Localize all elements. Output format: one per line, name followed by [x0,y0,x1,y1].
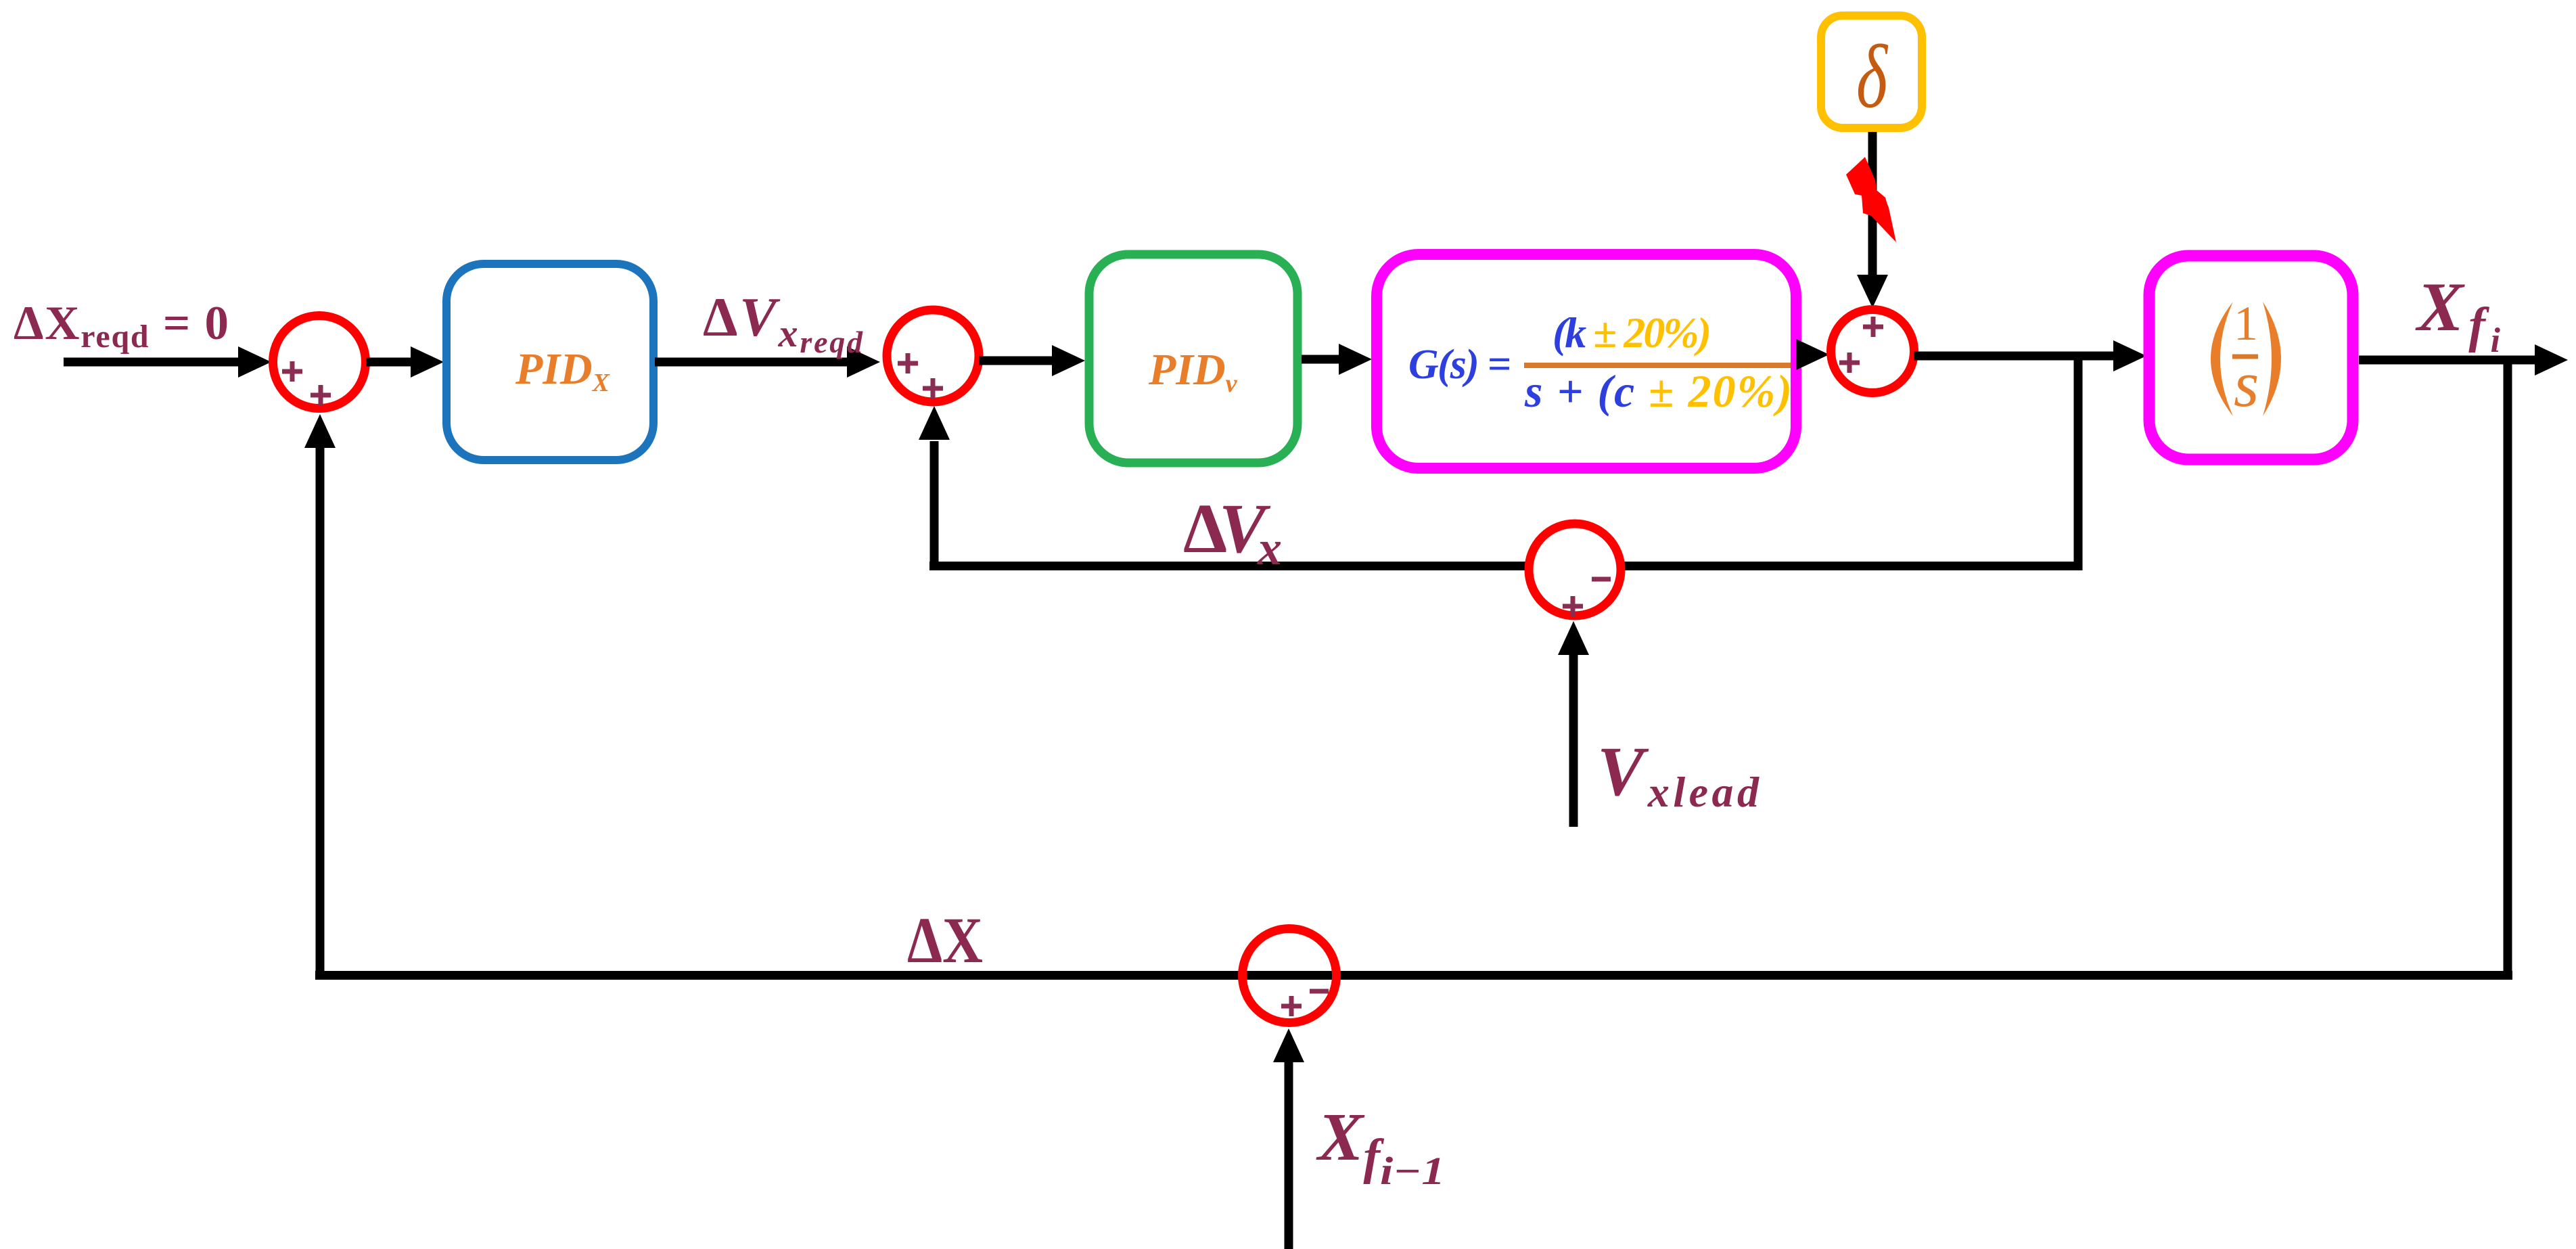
S1 plus sign (left) [282,361,302,382]
wire: V_xlead arrow up into S4 [1558,621,1589,827]
wire: bottom feedback takeoff down and left [315,356,2512,980]
S5 plus sign (bottom) [1281,996,1302,1016]
svg-text:1: 1 [2234,296,2258,350]
S3 plus sign (left) [1839,353,1860,373]
svg-text:δ: δ [1856,26,1889,127]
block PID_v (green box) [1089,254,1297,463]
summer S3 (circle) [1831,310,1914,393]
wire: S2 to PID_v [979,345,1085,376]
svg-text:s + (c ± 20%): s + (c ± 20%) [1524,365,1792,417]
wire: X_f_i-1 arrow up into S5 [1273,1028,1304,1249]
summer S4 (circle, on ΔV_x feedback) [1529,524,1621,616]
block PID_X (blue box) [446,264,653,460]
summer S1 (circle) [273,316,366,409]
wire: ΔV_x feedback takeoff down and left [929,353,2082,570]
fraction bar [1524,363,1791,368]
wire: G to summer S3 (short arrow) [1796,339,1829,370]
summer S2 (circle) [887,310,979,402]
lightning bolt (red) [1846,157,1896,242]
wire: delta arrow down into S3 [1857,132,1888,308]
block delta disturbance (gold box) [1821,16,1922,128]
svg-text:PIDv: PIDv [1148,345,1238,398]
(1/s) content [2211,296,2281,420]
S3 plus sign (top) [1863,317,1883,337]
wire: S1 to PID_X [366,346,444,378]
wire: PID_v to plant G [1302,344,1372,375]
wire: PID_X to summer S2 [655,346,880,378]
S5 minus sign [1310,989,1329,994]
S4 plus sign (bottom) [1563,596,1583,616]
wire: bottom feedback vertical into S1 [304,414,336,980]
S2 plus sign (bottom) [923,378,943,399]
wire: ΔV_x feedback vertical into S2 [919,406,950,570]
wire: S3 to integrator with takeoff junction [1914,340,2146,371]
wire: integrator output with takeoff [2359,344,2568,376]
S1 plus sign (bottom) [310,385,331,405]
svg-text:ΔX: ΔX [907,904,983,976]
block integrator 1/s (magenta box) [2149,256,2353,459]
svg-text:(k ± 20%): (k ± 20%) [1552,309,1711,357]
svg-text:G(s) =: G(s) = [1408,342,1511,388]
S4 minus sign [1592,577,1611,582]
summer S5 (circle, on bottom feedback) [1243,929,1337,1023]
S2 plus sign (left) [898,353,918,373]
wire: input arrow into summer S1 [64,346,271,378]
block G(s) plant (magenta box) [1377,254,1796,468]
